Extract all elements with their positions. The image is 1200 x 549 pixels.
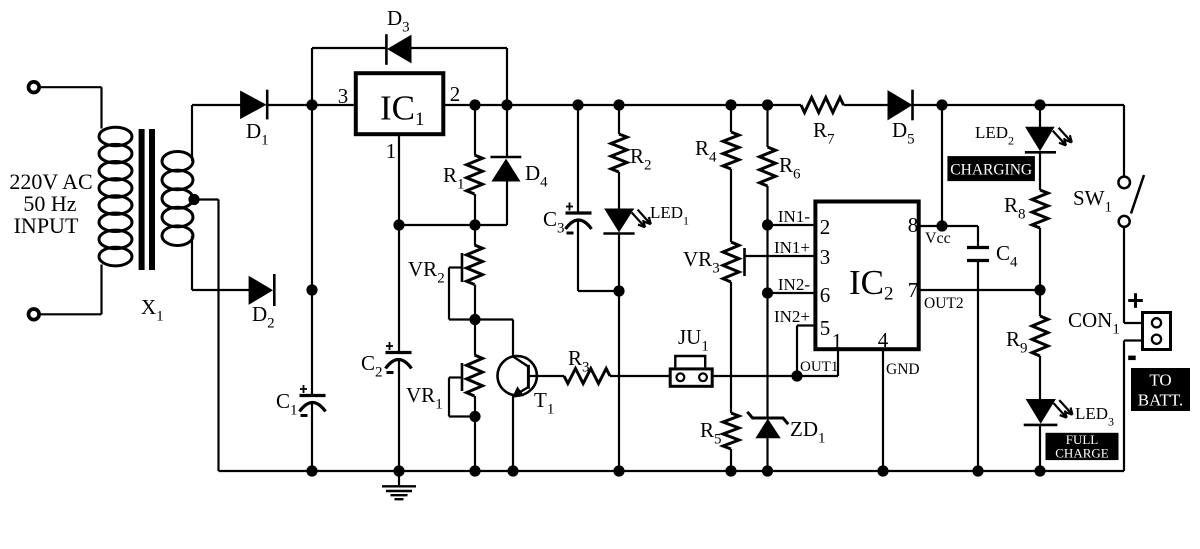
- wire R2 top lead: [618, 105, 620, 134]
- junction OUT1 node: [791, 370, 802, 381]
- wire D4 top lead: [506, 105, 508, 157]
- transformer X1 primary winding: [99, 127, 132, 266]
- wire pin 1 of IC1 down: [398, 134, 400, 225]
- resistor R4: [723, 132, 739, 169]
- transformer X1 core: [139, 129, 155, 270]
- transformer X1 secondary winding: [162, 152, 193, 246]
- label D1: [246, 119, 269, 149]
- junction D1 output: [306, 99, 317, 110]
- svg-text:INPUT: INPUT: [14, 213, 79, 238]
- wire centre tap right: [194, 198, 219, 200]
- wire IC2 pin 8 stub: [919, 225, 942, 227]
- svg-text:CHARGE: CHARGE: [1055, 446, 1109, 461]
- label LED2: [975, 123, 1014, 148]
- wire C4 top lead: [977, 226, 979, 246]
- charging box: [947, 156, 1035, 181]
- label D2: [252, 302, 275, 332]
- wire Vcc drop: [941, 105, 943, 226]
- wire R2 to LED1: [618, 172, 620, 209]
- junction R2 top: [613, 99, 624, 110]
- label C2: [361, 351, 383, 381]
- wire D3 bypass left segment: [312, 47, 386, 49]
- pin 5 label IC2: [820, 316, 831, 340]
- junction rail-VR1: [469, 465, 480, 476]
- capacitor C4: [967, 248, 989, 261]
- junction rail-LED3: [1034, 465, 1045, 476]
- pin 3 label IC2: [820, 245, 831, 269]
- label IN1-: [778, 207, 810, 226]
- wire bottom ground rail: [219, 470, 1125, 472]
- junction R1-VR2: [469, 219, 480, 230]
- label R1: [443, 163, 465, 193]
- junction IN1- node: [762, 219, 773, 230]
- wire C3 top lead: [577, 105, 579, 213]
- resistor R8: [1032, 190, 1048, 228]
- wire R5 to ground rail: [730, 449, 732, 471]
- diode D3: [386, 34, 411, 65]
- resistor R3: [564, 369, 610, 384]
- wire JU1 to OUT1 node: [714, 375, 797, 377]
- resistor R1: [467, 155, 483, 194]
- label SW1: [1073, 186, 1112, 216]
- junction C3-LED1: [613, 285, 624, 296]
- label D4: [525, 161, 548, 191]
- wire T1 emitter to ground rail: [512, 396, 514, 472]
- comparator IC2: [815, 202, 918, 350]
- junction rail-T1: [507, 465, 518, 476]
- diode D1: [241, 90, 268, 120]
- pin 8 label IC2: [908, 213, 919, 237]
- label R2: [630, 144, 652, 174]
- diode D4: [491, 157, 522, 181]
- label C1: [276, 389, 298, 419]
- junction rail-R5: [725, 465, 736, 476]
- preset VR2: [449, 245, 483, 320]
- LED LED1: [603, 209, 650, 234]
- wire LED3 to ground rail: [1039, 425, 1041, 471]
- wire LED2 to R8: [1039, 152, 1041, 190]
- wire R4 top lead: [730, 105, 732, 132]
- junction OUT2-R9: [1034, 284, 1045, 295]
- junction D2 output: [306, 284, 317, 295]
- label R7: [813, 118, 835, 148]
- capacitor C1: [300, 385, 326, 417]
- minus marker: [1128, 356, 1136, 361]
- full charge box: [1046, 432, 1119, 461]
- label C3: [543, 207, 565, 237]
- svg-text:TO: TO: [1149, 371, 1171, 390]
- wire pin1/R1/D4 junction row: [399, 224, 507, 226]
- wire R7 to D5: [844, 104, 889, 106]
- label CON1: [1068, 308, 1120, 338]
- junction pin1-C2: [393, 219, 404, 230]
- wire VR1 to ground rail: [474, 417, 476, 472]
- label IN2-: [778, 275, 810, 294]
- wire to CON1 plus terminal: [1124, 322, 1141, 324]
- wire OUT1 node to pin 1 drop: [797, 375, 838, 377]
- svg-text:3: 3: [338, 84, 349, 108]
- junction R6 top: [762, 99, 773, 110]
- wire SW1 to CON1 plus: [1123, 227, 1125, 323]
- junction IN2- node: [762, 287, 773, 298]
- label OUT2: [924, 295, 964, 312]
- resistor R5: [723, 413, 739, 449]
- preset VR1: [449, 355, 483, 417]
- wire D1 to node: [267, 104, 312, 106]
- wire pin 2 of IC1 to rail: [443, 104, 475, 106]
- wire secondary bottom lead: [191, 236, 193, 290]
- svg-text:IN2-: IN2-: [778, 275, 810, 294]
- wire C4 bottom to ground rail: [977, 261, 979, 472]
- wire CON1 minus down to rail: [1123, 341, 1125, 472]
- label R8: [1004, 193, 1026, 223]
- wire R8 to OUT2 node: [1039, 228, 1041, 290]
- label VR1: [406, 383, 443, 413]
- wire R1 top lead: [474, 105, 476, 155]
- wire R6 to pin2 node: [766, 186, 768, 225]
- svg-text:IN1+: IN1+: [774, 238, 810, 257]
- input terminal top: [29, 82, 40, 93]
- wire pin 5 down to OUT1 node: [796, 326, 798, 377]
- wire R9 to LED3: [1039, 356, 1041, 400]
- connector CON1: [1143, 313, 1171, 350]
- wire top rail D5 node to LED2 node: [942, 104, 1124, 106]
- svg-text:CHARGING: CHARGING: [950, 162, 1032, 179]
- svg-text:6: 6: [820, 283, 831, 307]
- label R5: [700, 418, 722, 448]
- svg-text:OUT2: OUT2: [924, 295, 964, 312]
- label IN1+: [774, 238, 810, 257]
- label D5: [892, 118, 915, 148]
- junction LED2 top: [1034, 99, 1045, 110]
- junction Vcc-C4: [936, 220, 947, 231]
- wire D4 bottom lead: [506, 181, 508, 225]
- to batt box: [1131, 368, 1190, 411]
- wire pin 3 of IC1: [312, 104, 354, 106]
- wire R6 top lead: [766, 105, 768, 147]
- wire D3 bypass right segment: [411, 47, 507, 49]
- svg-text:2: 2: [820, 215, 831, 239]
- preset VR3: [723, 242, 745, 282]
- label VR3: [683, 247, 720, 277]
- junction R1 top: [469, 99, 480, 110]
- junction rail-GND pin: [877, 465, 888, 476]
- svg-text:IN2+: IN2+: [774, 307, 810, 326]
- junction C3 top: [572, 99, 583, 110]
- junction rail-C4: [972, 465, 983, 476]
- wire secondary bottom to D2: [192, 289, 249, 291]
- wire IC2 pin 5 stub: [797, 324, 813, 326]
- wire down to C2: [398, 225, 400, 353]
- wire rail corner down to SW1: [1123, 105, 1125, 177]
- wire T1 base to R3: [530, 375, 564, 377]
- wire C2 to ground rail: [398, 360, 400, 471]
- wire up to transformer primary bottom: [100, 265, 102, 315]
- label GND: [886, 361, 920, 378]
- wire C3 to LED1 column: [578, 290, 619, 292]
- resistor R6: [760, 147, 776, 186]
- diode D2: [249, 274, 274, 306]
- label LED1: [650, 203, 689, 228]
- wire VR1 top lead: [474, 320, 476, 356]
- svg-text:1: 1: [386, 139, 397, 163]
- wire rail to diode D1: [192, 104, 241, 106]
- transistor T1: [498, 356, 537, 397]
- wire VR2 node to T1 collector: [475, 318, 513, 320]
- input terminal bottom: [29, 309, 40, 320]
- wire IN2- node to IC2 pin 6: [768, 292, 814, 294]
- junction VR2 wiper node: [469, 314, 480, 325]
- svg-text:2: 2: [450, 82, 461, 106]
- wire IC2 pin 4 GND to rail: [882, 349, 884, 471]
- wire from top input terminal: [41, 86, 102, 88]
- op-amp regulator IC1: [356, 73, 444, 134]
- wire LED1 down: [618, 234, 620, 472]
- svg-text:7: 7: [908, 278, 919, 302]
- label X1: [141, 295, 164, 325]
- pin 2 label IC1: [450, 82, 461, 106]
- wire from bottom input terminal: [41, 313, 102, 315]
- junction D5 output: [936, 99, 947, 110]
- label C4: [996, 241, 1018, 271]
- wire node to IN2- node: [766, 225, 768, 293]
- pin 1 label IC2: [832, 329, 843, 353]
- resistor R7: [801, 98, 844, 113]
- wire D2 node down to C1: [311, 290, 313, 395]
- junction D4 top: [501, 99, 512, 110]
- label VR2: [408, 257, 445, 287]
- wire node down to D2 node: [311, 105, 313, 290]
- label R4: [695, 136, 717, 166]
- label OUT1: [800, 359, 838, 375]
- label JU1: [678, 325, 709, 355]
- wire CON1 minus terminal: [1124, 339, 1141, 341]
- wire node up to D3 bypass: [311, 48, 313, 105]
- svg-text:4: 4: [878, 328, 889, 352]
- wire IC2 pin 7 OUT2: [919, 289, 1040, 291]
- svg-text:8: 8: [908, 213, 919, 237]
- label D3: [387, 6, 410, 36]
- diode D5: [888, 90, 913, 121]
- junction rail-C2: [393, 465, 404, 476]
- ground: [382, 471, 416, 499]
- label ZD1: [790, 417, 826, 447]
- label LED3: [1075, 404, 1114, 429]
- zener diode ZD1: [747, 412, 788, 438]
- wire Vcc node to C4: [942, 225, 978, 227]
- wire OUT2 node to R9: [1039, 290, 1041, 316]
- pin 3 label IC1: [338, 84, 349, 108]
- jumper JU1: [670, 356, 712, 386]
- switch SW1: [1118, 175, 1144, 227]
- wire D5 to Vcc node: [913, 104, 943, 106]
- wire C1 to ground rail: [311, 403, 313, 471]
- label 220V AC 50 Hz INPUT: [9, 169, 92, 238]
- plus marker: [1128, 293, 1143, 308]
- svg-text:3: 3: [820, 245, 831, 269]
- LED LED2: [1025, 127, 1072, 152]
- wire VR3 to R5: [730, 282, 732, 413]
- pin 6 label IC2: [820, 283, 831, 307]
- junction rail-C1: [306, 465, 317, 476]
- label R6: [779, 153, 801, 183]
- capacitor C3: [566, 203, 592, 235]
- pin 4 label IC2: [878, 328, 889, 352]
- svg-text:Vcc: Vcc: [925, 230, 951, 247]
- wire T1 collector lead: [512, 320, 514, 357]
- wire C3 bottom lead: [577, 221, 579, 292]
- wire ZD1 to ground rail: [766, 438, 768, 471]
- wire IN1- node to IC2 pin 2: [768, 224, 814, 226]
- junction rail-ZD1: [762, 465, 773, 476]
- resistor R2: [611, 134, 627, 172]
- svg-text:5: 5: [820, 316, 831, 340]
- label Vcc: [925, 230, 951, 247]
- label IN2+: [774, 307, 810, 326]
- junction rail-LED1: [613, 465, 624, 476]
- wire VR2 bottom lead: [474, 285, 476, 320]
- wire R1 bottom lead: [474, 194, 476, 225]
- wire R3 to JU1: [610, 375, 670, 377]
- wire centre tap down to ground rail: [217, 200, 219, 472]
- junction R4 top: [725, 99, 736, 110]
- label R9: [1006, 327, 1028, 357]
- pin 2 label IC2: [820, 215, 831, 239]
- svg-text:IN1-: IN1-: [778, 207, 810, 226]
- svg-text:OUT1: OUT1: [800, 359, 838, 375]
- svg-text:BATT.: BATT.: [1138, 391, 1184, 410]
- wire top rail IC1 to R7: [475, 104, 801, 106]
- wire VR1 bottom lead: [474, 396, 476, 417]
- wire IN2- node down to ZD1: [766, 293, 768, 419]
- wire down to transformer primary top: [100, 87, 102, 128]
- wire VR2 top lead: [474, 225, 476, 245]
- junction VR1 bottom: [469, 411, 480, 422]
- wire R4 to VR3: [730, 169, 732, 242]
- junction centre tap: [188, 194, 199, 205]
- wire pin 1 drop: [837, 349, 839, 376]
- svg-text:GND: GND: [886, 361, 920, 378]
- label R3: [568, 346, 590, 376]
- LED LED3: [1024, 400, 1073, 425]
- wire bypass down to rail: [506, 48, 508, 105]
- wire secondary top to rail: [191, 105, 193, 161]
- wire VR3 wiper to IC2 pin 3: [744, 255, 813, 257]
- capacitor C2: [386, 342, 412, 374]
- wire LED2 top lead: [1039, 105, 1041, 127]
- pin 7 label IC2: [908, 278, 919, 302]
- label T1: [534, 388, 554, 418]
- pin 1 label IC1: [386, 139, 397, 163]
- resistor R9: [1032, 316, 1048, 356]
